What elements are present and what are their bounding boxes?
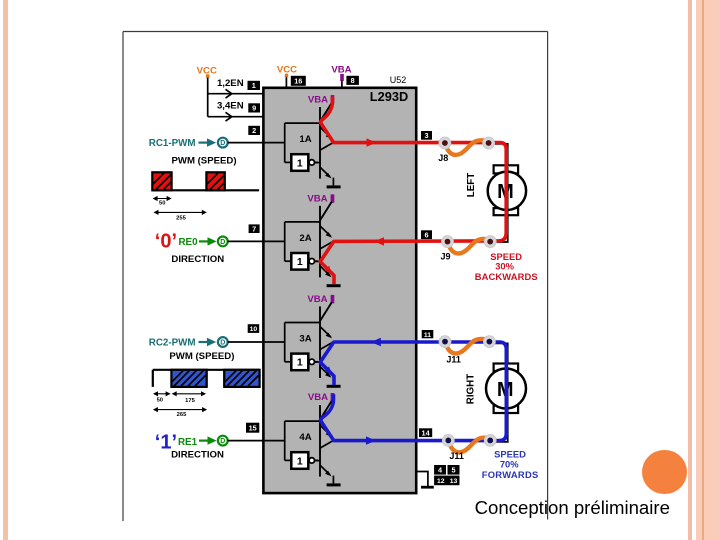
connector wire J8 bbox=[446, 140, 488, 155]
label SPEED 70% FORWARDS bbox=[482, 449, 539, 481]
junction pad J9-a bbox=[442, 236, 454, 248]
arrow on 3,4EN wire bbox=[226, 112, 232, 121]
red current path left motor bbox=[320, 97, 506, 285]
wire pin3 to left motor (black) bbox=[489, 144, 508, 167]
upper transistor of channel 4A bbox=[320, 401, 332, 437]
pin 1 bbox=[248, 81, 261, 90]
red arrow out of pin 3 bbox=[367, 138, 377, 146]
wire to ground (pins 4,5,12,13) bbox=[416, 472, 428, 487]
arrow RE1 bbox=[199, 436, 217, 444]
wire RE0 to pin 7 bbox=[228, 240, 264, 242]
svg-text:5: 5 bbox=[451, 465, 455, 474]
svg-text:D: D bbox=[220, 340, 225, 347]
svg-text:14: 14 bbox=[422, 428, 431, 437]
motor M LEFT shaft wire bbox=[507, 167, 509, 214]
svg-text:DIRECTION: DIRECTION bbox=[171, 449, 224, 460]
svg-text:D: D bbox=[220, 239, 225, 246]
pin 4 bbox=[434, 465, 446, 475]
pin 10 bbox=[248, 324, 260, 333]
NOT gate of channel 1A bbox=[291, 154, 318, 171]
wire VBA to pin 8 bbox=[341, 81, 343, 88]
wire VCC to pin 16 bbox=[285, 77, 287, 88]
junction pad J11-top-b bbox=[484, 336, 496, 348]
junction pad J11-bot-a bbox=[442, 435, 454, 447]
svg-text:1A: 1A bbox=[299, 134, 311, 145]
svg-text:50: 50 bbox=[159, 201, 165, 207]
upper transistor of channel 2A bbox=[320, 202, 332, 238]
svg-text:‘0’: ‘0’ bbox=[155, 231, 177, 253]
blue arrow into pin 11 bbox=[371, 338, 381, 346]
slide caption bbox=[475, 497, 670, 519]
ground (pins 4,5,12,13) bbox=[421, 486, 434, 489]
PWM pulse 1 (blue) bbox=[171, 370, 206, 387]
left margin stripe bbox=[3, 0, 8, 540]
svg-text:VBA: VBA bbox=[307, 194, 327, 205]
junction pad J8-a bbox=[439, 137, 451, 149]
svg-text:J11: J11 bbox=[446, 355, 461, 365]
red arrow into pin 6 bbox=[374, 237, 384, 245]
svg-text:8: 8 bbox=[351, 76, 355, 85]
input pad RC1-PWM bbox=[218, 138, 228, 148]
IC U52 L293D body bbox=[263, 88, 416, 493]
dimension arrow 50 (right) bbox=[153, 391, 171, 396]
svg-text:PWM (SPEED): PWM (SPEED) bbox=[171, 155, 236, 166]
PWM pulse 2 (red) bbox=[206, 172, 224, 190]
connector wire J9 bbox=[449, 239, 490, 254]
svg-text:11: 11 bbox=[424, 332, 431, 339]
NOT gate of channel 4A bbox=[291, 452, 318, 469]
wire right motor to pin14 (black) bbox=[489, 412, 508, 442]
transistor bus of channel 2A bbox=[319, 206, 321, 278]
PWM pulse 2 (blue) bbox=[224, 370, 259, 387]
upper transistor of channel 1A bbox=[320, 103, 332, 139]
svg-text:LEFT: LEFT bbox=[466, 173, 477, 198]
PWM waveform (left, 30%) baseline bbox=[152, 189, 259, 191]
svg-text:15: 15 bbox=[249, 423, 257, 432]
motor M RIGHT body bbox=[486, 369, 526, 409]
svg-text:J11: J11 bbox=[449, 451, 464, 461]
power net VBA 4A bbox=[308, 392, 334, 403]
pin 5 bbox=[448, 465, 460, 475]
arrow RC2-PWM bbox=[199, 338, 217, 346]
svg-text:2: 2 bbox=[252, 126, 256, 135]
driver channel 4A input branch wire bbox=[264, 421, 321, 460]
wire VCC to enables bbox=[208, 78, 264, 117]
pin 3 bbox=[421, 131, 432, 140]
pin 2 bbox=[248, 126, 260, 135]
pin 9 bbox=[248, 103, 260, 112]
driver channel 1A input branch wire bbox=[264, 123, 321, 162]
wire RC2-PWM to pin 10 bbox=[228, 341, 264, 343]
red arrow lower transistor 2A bbox=[324, 266, 331, 274]
power net VBA (motor supply) bbox=[331, 65, 351, 81]
svg-text:U52: U52 bbox=[390, 75, 407, 85]
motor M LEFT body bbox=[488, 172, 526, 210]
driver channel 3A input branch wire bbox=[264, 323, 321, 362]
motor M RIGHT terminals bbox=[494, 364, 518, 414]
svg-text:12: 12 bbox=[437, 478, 445, 485]
svg-text:1: 1 bbox=[252, 81, 256, 90]
svg-text:RE1: RE1 bbox=[178, 437, 198, 448]
pin 15 bbox=[246, 423, 259, 433]
svg-text:13: 13 bbox=[450, 478, 458, 485]
blue arrow lower transistor 3A bbox=[324, 366, 331, 374]
arrow on 1,2EN wire bbox=[226, 89, 232, 98]
schematic frame border bbox=[123, 32, 548, 522]
pin 11 bbox=[422, 330, 434, 339]
junction pad J11-bot-b bbox=[484, 435, 496, 447]
power net VBA 3A bbox=[307, 294, 334, 305]
svg-text:9: 9 bbox=[252, 104, 256, 113]
connector wire J11 top bbox=[446, 339, 489, 354]
svg-text:RIGHT: RIGHT bbox=[465, 374, 476, 404]
svg-text:FORWARDS: FORWARDS bbox=[482, 469, 539, 480]
svg-text:265: 265 bbox=[177, 412, 187, 418]
arrow RE0 bbox=[199, 237, 217, 245]
svg-text:6: 6 bbox=[424, 230, 428, 239]
wire pin11 to right motor (black) bbox=[489, 343, 508, 367]
ground of channel 4A bbox=[327, 483, 341, 486]
pin 16 bbox=[291, 76, 306, 86]
power net VCC (supply) bbox=[277, 65, 297, 77]
ground of channel 1A bbox=[327, 185, 341, 188]
svg-text:10: 10 bbox=[250, 326, 258, 333]
dimension arrow 175 bbox=[172, 391, 206, 396]
svg-text:1: 1 bbox=[297, 256, 303, 268]
lower transistor of channel 2A bbox=[315, 241, 335, 284]
svg-text:VBA: VBA bbox=[308, 392, 328, 403]
PWM waveform (right, 70%) top rail bbox=[153, 370, 260, 387]
lower transistor of channel 4A bbox=[315, 440, 335, 483]
svg-text:3,4EN: 3,4EN bbox=[217, 101, 244, 112]
ground of channel 2A bbox=[327, 284, 341, 287]
svg-text:1,2EN: 1,2EN bbox=[217, 78, 244, 89]
svg-text:70%: 70% bbox=[500, 459, 519, 470]
right band dark line bbox=[702, 0, 704, 540]
svg-text:7: 7 bbox=[252, 224, 256, 233]
right margin band bbox=[696, 0, 720, 540]
connector wire J11 bottom bbox=[449, 438, 489, 453]
svg-text:RE0: RE0 bbox=[178, 237, 198, 248]
pin 14 bbox=[419, 428, 432, 437]
svg-text:RC1-PWM: RC1-PWM bbox=[149, 138, 196, 149]
svg-text:D: D bbox=[220, 140, 225, 147]
lower transistor of channel 1A bbox=[315, 142, 335, 185]
dimension arrow 50 (left) bbox=[153, 196, 172, 201]
svg-text:D: D bbox=[220, 438, 225, 445]
svg-text:J9: J9 bbox=[440, 251, 450, 261]
orange bullet circle bbox=[642, 450, 687, 494]
transistor bus of channel 4A bbox=[319, 405, 321, 477]
motor M LEFT terminals bbox=[494, 165, 518, 215]
driver channel 2A input branch wire bbox=[264, 222, 321, 261]
input pad RE1 bbox=[218, 436, 228, 446]
svg-text:3: 3 bbox=[424, 131, 428, 140]
pin 6 bbox=[421, 230, 432, 239]
upper transistor of channel 3A bbox=[320, 302, 332, 338]
svg-text:50: 50 bbox=[157, 398, 163, 404]
svg-text:1: 1 bbox=[297, 157, 303, 169]
PWM pulse 1 (red) bbox=[152, 172, 171, 190]
transistor bus of channel 1A bbox=[319, 107, 321, 179]
input pad RC2-PWM bbox=[218, 337, 228, 347]
svg-text:VBA: VBA bbox=[308, 94, 328, 105]
svg-text:L293D: L293D bbox=[370, 89, 408, 104]
svg-text:175: 175 bbox=[185, 398, 195, 404]
svg-text:J8: J8 bbox=[438, 153, 448, 163]
wire RC1-PWM to pin 2 bbox=[228, 142, 264, 144]
blue current path right motor bbox=[320, 342, 506, 441]
NOT gate of channel 2A bbox=[291, 253, 318, 270]
ground of channel 3A bbox=[327, 385, 341, 388]
power net VBA 1A bbox=[308, 94, 334, 105]
svg-text:30%: 30% bbox=[495, 260, 514, 271]
pin 12 bbox=[434, 476, 447, 486]
junction pad J8-b bbox=[483, 137, 495, 149]
svg-text:RC2-PWM: RC2-PWM bbox=[149, 337, 196, 348]
svg-text:3A: 3A bbox=[299, 334, 311, 345]
pin 8 bbox=[346, 76, 359, 85]
dimension arrow 255 bbox=[154, 210, 207, 215]
svg-text:DIRECTION: DIRECTION bbox=[171, 254, 224, 265]
wire RE1 to pin 15 bbox=[228, 440, 264, 442]
pin 7 bbox=[249, 224, 260, 233]
input pad RE0 bbox=[218, 237, 228, 247]
svg-text:1: 1 bbox=[297, 455, 303, 467]
svg-text:BACKWARDS: BACKWARDS bbox=[475, 271, 538, 282]
junction pad J11-top-a bbox=[439, 336, 451, 348]
power net VBA 2A bbox=[307, 194, 334, 205]
svg-text:VBA: VBA bbox=[307, 294, 327, 305]
motor M RIGHT shaft wire bbox=[507, 367, 509, 412]
dimension arrow 265 bbox=[153, 407, 207, 412]
power net VCC (enable) bbox=[197, 66, 217, 78]
junction pad J9-b bbox=[484, 236, 496, 248]
svg-text:PWM (SPEED): PWM (SPEED) bbox=[169, 351, 234, 362]
svg-text:1: 1 bbox=[297, 357, 303, 369]
arrow RC1-PWM bbox=[199, 138, 217, 146]
svg-text:16: 16 bbox=[294, 76, 302, 85]
transistor bus of channel 3A bbox=[319, 306, 321, 378]
lower transistor of channel 3A bbox=[315, 342, 335, 385]
svg-text:2A: 2A bbox=[299, 233, 311, 244]
svg-text:255: 255 bbox=[176, 215, 186, 221]
wire left motor to pin6 (black) bbox=[489, 214, 508, 242]
blue arrow out of pin 14 bbox=[366, 436, 376, 444]
svg-text:4A: 4A bbox=[299, 432, 311, 443]
pin 13 bbox=[448, 476, 460, 486]
right thin stripe bbox=[688, 0, 692, 540]
label SPEED 30% BACKWARDS bbox=[475, 251, 538, 282]
NOT gate of channel 3A bbox=[291, 354, 318, 371]
